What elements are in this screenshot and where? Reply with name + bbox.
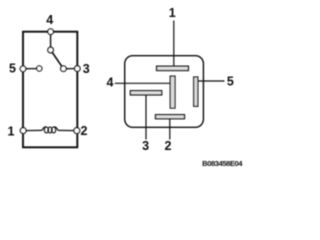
terminal slot 1 bbox=[157, 66, 189, 70]
svg-text:2: 2 bbox=[81, 124, 88, 138]
svg-text:3: 3 bbox=[83, 62, 90, 76]
wire pin 5 to open contact bbox=[23, 68, 39, 70]
svg-text:1: 1 bbox=[8, 124, 15, 138]
svg-text:4: 4 bbox=[107, 76, 114, 90]
coil L1 bbox=[42, 127, 58, 133]
switch arm (common 4 to contact 3) bbox=[51, 50, 64, 69]
terminal pin 4 bbox=[48, 29, 54, 35]
svg-text:5: 5 bbox=[9, 61, 16, 75]
wire contact to pin 3 bbox=[63, 68, 77, 70]
svg-text:3: 3 bbox=[142, 139, 149, 153]
svg-text:5: 5 bbox=[227, 75, 234, 89]
svg-text:4: 4 bbox=[46, 13, 53, 27]
terminal slot 4 bbox=[170, 76, 175, 108]
terminal slot 5 bbox=[194, 77, 198, 106]
terminal slot 2 bbox=[156, 115, 185, 119]
open contact node (5 side) bbox=[37, 66, 42, 71]
terminal pin 1 bbox=[20, 128, 26, 134]
wire coil to pin 2 bbox=[58, 129, 77, 131]
leader pin 2 bbox=[169, 119, 171, 140]
svg-text:1: 1 bbox=[169, 6, 176, 20]
switch pivot node bbox=[48, 47, 54, 53]
terminal pin 2 bbox=[74, 128, 80, 134]
leader pin 5 bbox=[198, 80, 225, 82]
svg-text:B083458E04: B083458E04 bbox=[202, 159, 243, 168]
wire pin4 to switch pivot bbox=[50, 32, 52, 50]
wire pin 1 to coil bbox=[23, 129, 42, 131]
svg-text:2: 2 bbox=[165, 139, 172, 153]
terminal slot 3 bbox=[130, 91, 161, 95]
relay body (terminal view) bbox=[125, 56, 204, 128]
leader pin 3 bbox=[145, 95, 147, 140]
leader pin 1 bbox=[173, 21, 175, 67]
terminal pin 3 bbox=[75, 66, 81, 72]
relay outline box (schematic) bbox=[23, 32, 77, 148]
terminal pin 5 bbox=[20, 66, 26, 72]
leader pin 4 bbox=[115, 82, 170, 84]
contact node (3 side) bbox=[61, 66, 67, 72]
